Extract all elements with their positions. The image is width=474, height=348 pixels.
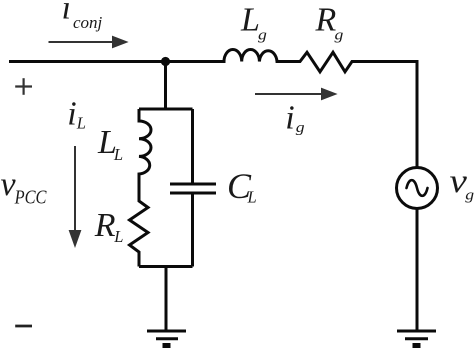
svg-text:L: L bbox=[113, 227, 123, 246]
svg-text:g: g bbox=[465, 186, 474, 203]
svg-text:L: L bbox=[240, 2, 260, 39]
svg-text:conj: conj bbox=[73, 13, 103, 32]
svg-text:L: L bbox=[113, 145, 123, 164]
svg-text:R: R bbox=[94, 207, 116, 244]
svg-text:g: g bbox=[296, 118, 305, 135]
svg-text:L: L bbox=[76, 113, 86, 132]
svg-text:L: L bbox=[247, 187, 257, 206]
svg-text:i: i bbox=[285, 99, 294, 136]
svg-text:g: g bbox=[335, 26, 344, 43]
svg-text:PCC: PCC bbox=[14, 186, 47, 208]
svg-text:g: g bbox=[258, 26, 267, 43]
svg-text:i: i bbox=[67, 95, 76, 132]
svg-text:R: R bbox=[315, 2, 337, 39]
svg-text:i: i bbox=[62, 0, 71, 27]
